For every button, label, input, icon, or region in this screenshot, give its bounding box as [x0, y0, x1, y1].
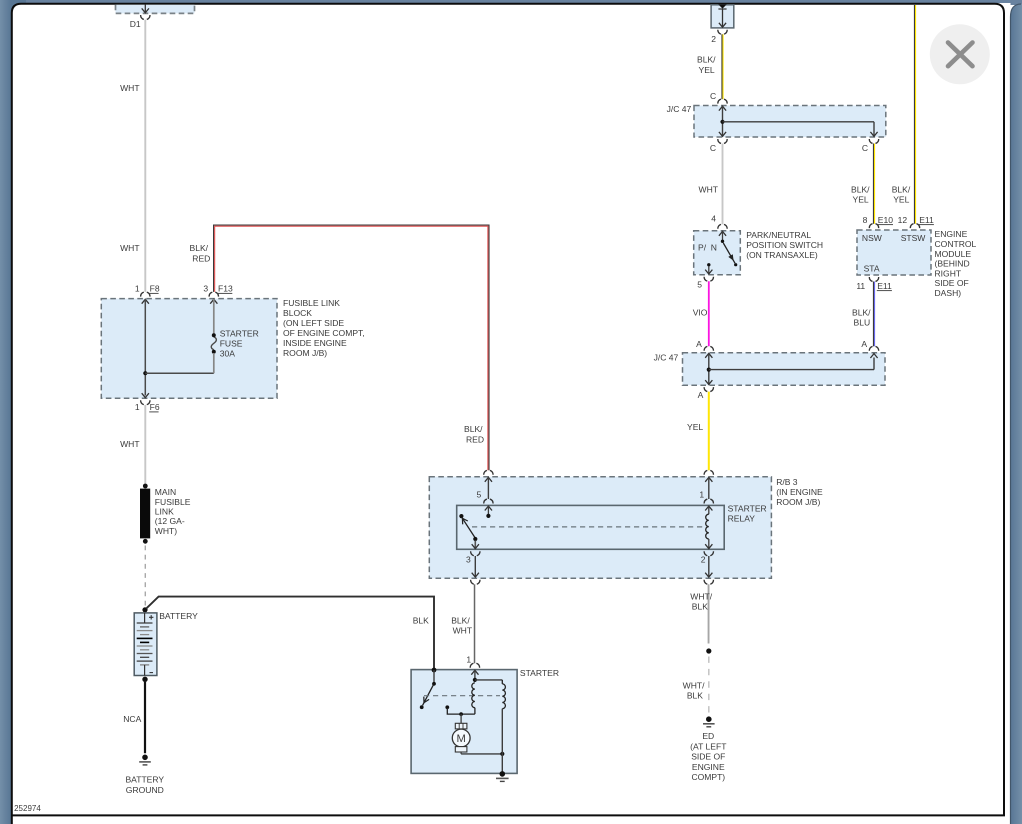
- svg-text:5: 5: [697, 279, 702, 289]
- svg-text:R/B 3: R/B 3: [776, 477, 798, 487]
- svg-text:C: C: [862, 143, 868, 153]
- wire BLK/YEL to ECM STSW: [913, 5, 915, 224]
- svg-text:PARK/NEUTRAL: PARK/NEUTRAL: [746, 230, 811, 240]
- starter pull-in coil: [472, 683, 475, 708]
- svg-text:5: 5: [477, 490, 482, 500]
- svg-text:12: 12: [898, 215, 908, 225]
- starter fuse 30A: [211, 299, 216, 373]
- fusible block exit arrow: [142, 393, 149, 397]
- svg-text:BLK/: BLK/: [851, 184, 870, 194]
- svg-text:J/C 47: J/C 47: [654, 353, 679, 363]
- svg-text:3: 3: [203, 284, 208, 294]
- wire WHT F6 to main fusible link: [144, 405, 146, 484]
- main fusible link: [140, 484, 150, 544]
- svg-text:INSIDE ENGINE: INSIDE ENGINE: [283, 338, 347, 348]
- svg-text:WHT: WHT: [120, 439, 140, 449]
- svg-text:11: 11: [856, 281, 865, 291]
- wire VIO: [708, 281, 710, 346]
- starter solenoid wiring: [473, 670, 503, 682]
- svg-text:BLK/: BLK/: [852, 307, 871, 317]
- starter contact stub: [445, 705, 475, 714]
- junction dot WHT/BLK: [706, 648, 711, 653]
- svg-text:(AT LEFT: (AT LEFT: [690, 741, 727, 751]
- svg-text:30A: 30A: [220, 349, 236, 359]
- battery ground symbol: [139, 755, 151, 765]
- ECM pin 8 connector: [869, 224, 878, 228]
- svg-text:1: 1: [466, 655, 471, 665]
- frame corner patch top-left: [0, 0, 26, 18]
- relay block R/B 3 box: [429, 477, 771, 579]
- svg-text:OF ENGINE COMPT,: OF ENGINE COMPT,: [283, 328, 365, 338]
- svg-text:2: 2: [701, 555, 706, 565]
- wire WHT D1 to F8: [144, 20, 146, 292]
- P/N switch contact: [721, 231, 738, 266]
- svg-text:ROOM J/B): ROOM J/B): [776, 497, 820, 507]
- svg-text:WHT/: WHT/: [683, 680, 705, 690]
- svg-text:3: 3: [466, 555, 471, 565]
- svg-text:E10: E10: [878, 215, 893, 225]
- starter pin 1 entry arrow: [471, 670, 478, 674]
- wire inside fusible block horizontal: [145, 372, 214, 374]
- svg-text:WHT: WHT: [120, 243, 140, 253]
- svg-text:STARTER: STARTER: [520, 668, 559, 678]
- dashed wire to battery: [144, 546, 146, 606]
- starter mechanical dashed link: [424, 695, 500, 697]
- svg-text:ROOM J/B): ROOM J/B): [283, 348, 327, 358]
- relay coil: [705, 506, 712, 549]
- svg-text:WHT: WHT: [120, 83, 140, 93]
- svg-text:STARTER: STARTER: [220, 328, 259, 338]
- svg-text:A: A: [696, 339, 702, 349]
- P/N pin 5 connector: [704, 277, 713, 281]
- svg-text:BLK: BLK: [692, 602, 708, 612]
- svg-text:E11: E11: [919, 215, 934, 225]
- svg-text:WHT: WHT: [453, 626, 473, 636]
- svg-text:(BEHIND: (BEHIND: [935, 259, 970, 269]
- engine control module box: [857, 230, 931, 275]
- motor M: [452, 714, 470, 754]
- wire inside fusible block left: [144, 299, 146, 396]
- svg-text:D1: D1: [130, 19, 141, 29]
- svg-text:252974: 252974: [14, 804, 41, 813]
- wire pin1 to relay: [708, 477, 710, 499]
- svg-text:ENGINE: ENGINE: [935, 229, 968, 239]
- relay mechanical dashed link: [472, 526, 704, 528]
- svg-text:BLK/: BLK/: [451, 615, 470, 625]
- ECM pin 12 connector: [910, 224, 919, 228]
- svg-text:(12 GA-: (12 GA-: [155, 516, 185, 526]
- junction connector J/C 47 box 2: [683, 353, 886, 386]
- svg-text:WHT: WHT: [699, 184, 719, 194]
- svg-text:BATTERY: BATTERY: [125, 774, 164, 784]
- wire BLK/WHT relay to starter: [473, 584, 475, 663]
- starter switch contact: [420, 668, 437, 710]
- starter hold-in coil: [501, 680, 503, 684]
- svg-text:(IN ENGINE: (IN ENGINE: [776, 487, 823, 497]
- J/C 47 exit arrows: [719, 132, 726, 136]
- wire BLK/YEL to J/C 47: [721, 34, 723, 99]
- ignition switch connector box pin 2: [711, 4, 734, 34]
- svg-text:1: 1: [699, 489, 704, 499]
- svg-text:YEL: YEL: [687, 422, 703, 432]
- wire WHT to park/neutral switch: [722, 144, 724, 225]
- viewer frame left bar: [0, 0, 11, 824]
- fusible link block box: [101, 299, 277, 399]
- svg-text:WHT/: WHT/: [690, 591, 712, 601]
- svg-text:WHT): WHT): [155, 526, 177, 536]
- svg-text:BLK: BLK: [687, 690, 703, 700]
- svg-text:NSW: NSW: [862, 233, 883, 243]
- svg-text:4: 4: [711, 214, 716, 224]
- wire pin5 to relay: [487, 477, 489, 499]
- svg-text:RED: RED: [192, 253, 210, 263]
- svg-text:C: C: [710, 143, 716, 153]
- wire YEL: [708, 392, 710, 471]
- svg-text:DASH): DASH): [935, 288, 962, 298]
- svg-text:FUSIBLE LINK: FUSIBLE LINK: [283, 298, 340, 308]
- pin 1 F8: [135, 284, 160, 304]
- svg-text:F8: F8: [150, 284, 160, 294]
- svg-text:YEL: YEL: [893, 195, 909, 205]
- svg-text:ENGINE: ENGINE: [692, 762, 725, 772]
- svg-text:POSITION SWITCH: POSITION SWITCH: [746, 240, 823, 250]
- svg-text:A: A: [698, 390, 704, 400]
- svg-text:F6: F6: [150, 402, 160, 412]
- R/B3 pin 1 connector: [704, 470, 713, 474]
- relay pin 2 bottom connector: [704, 551, 713, 555]
- svg-text:BLU: BLU: [854, 318, 871, 328]
- P/N pin 5 stub: [705, 263, 712, 274]
- junction dot motor tap: [459, 712, 463, 716]
- wire BLK/YEL to ECM NSW: [872, 144, 874, 224]
- pin 3 F13: [203, 284, 233, 304]
- svg-text:J/C 47: J/C 47: [667, 104, 692, 114]
- svg-text:YEL: YEL: [699, 65, 715, 75]
- svg-text:BATTERY: BATTERY: [159, 611, 198, 621]
- close button: [930, 24, 990, 84]
- svg-text:(ON TRANSAXLE): (ON TRANSAXLE): [746, 250, 818, 260]
- svg-text:1: 1: [135, 284, 140, 294]
- svg-text:FUSE: FUSE: [220, 338, 243, 348]
- connector D1 box: [116, 5, 195, 20]
- svg-text:F13: F13: [218, 284, 233, 294]
- starter motor to ground wire: [461, 753, 502, 755]
- svg-text:BLK/: BLK/: [464, 424, 483, 434]
- svg-text:RED: RED: [466, 434, 484, 444]
- svg-text:BLK: BLK: [413, 615, 429, 625]
- svg-text:MAIN: MAIN: [155, 487, 176, 497]
- viewer frame top bar: [0, 0, 1022, 3]
- relay switch: [459, 514, 479, 549]
- viewer frame right bar: [1011, 4, 1022, 824]
- svg-text:STSW: STSW: [901, 233, 927, 243]
- starter pin 1 connector: [470, 663, 479, 667]
- wire BLK/RED (F13 up, across, down to relay pin 5): [214, 225, 489, 470]
- J/C 47 #2 exit arrow: [705, 380, 712, 384]
- ground ED: [703, 716, 715, 726]
- starter relay inner box: [457, 505, 725, 549]
- svg-text:VIO: VIO: [693, 307, 708, 317]
- svg-text:COMPT): COMPT): [691, 772, 725, 782]
- J/C 47 #2 internal wires: [708, 353, 710, 385]
- svg-text:LINK: LINK: [155, 506, 174, 516]
- dashed wire WHT/BLK to ED: [708, 657, 710, 714]
- svg-text:RELAY: RELAY: [728, 514, 756, 524]
- J/C 47 #2 pin A connectors top: [704, 346, 713, 350]
- svg-text:A: A: [861, 339, 867, 349]
- svg-text:ED: ED: [702, 731, 714, 741]
- wire BLK battery to starter: [146, 597, 434, 670]
- starter case ground: [496, 771, 509, 781]
- svg-text:SIDE OF: SIDE OF: [935, 278, 969, 288]
- starter right branch: [501, 709, 503, 774]
- pin 1 F6: [135, 400, 160, 412]
- J/C 47 pin C top connector: [718, 99, 727, 103]
- junction connector J/C 47 box 1: [694, 106, 886, 138]
- svg-text:BLK/: BLK/: [892, 184, 911, 194]
- J/C 47 internal wires: [722, 106, 724, 137]
- svg-text:N: N: [711, 243, 717, 253]
- svg-text:BLK/: BLK/: [697, 55, 716, 65]
- wire BLK/BLU: [872, 282, 874, 347]
- ECM pin 11 connector: [869, 277, 878, 281]
- svg-text:CONTROL: CONTROL: [935, 239, 977, 249]
- park/neutral position switch box: [694, 231, 741, 275]
- svg-text:8: 8: [863, 215, 868, 225]
- junction dot: [143, 371, 147, 375]
- svg-text:MODULE: MODULE: [935, 249, 972, 259]
- svg-text:SIDE OF: SIDE OF: [691, 752, 725, 762]
- svg-text:STA: STA: [864, 263, 880, 273]
- wire NCA: [144, 682, 146, 753]
- svg-text:2: 2: [711, 34, 716, 44]
- svg-text:P/: P/: [698, 243, 707, 253]
- svg-text:STARTER: STARTER: [728, 504, 767, 514]
- starter box: [411, 670, 517, 774]
- svg-text:E11: E11: [877, 281, 892, 291]
- P/N pin 4 connector: [718, 224, 727, 228]
- svg-text:NCA: NCA: [123, 714, 141, 724]
- svg-text:GROUND: GROUND: [126, 785, 164, 795]
- J/C 47 bottom connectors: [718, 139, 727, 143]
- svg-text:YEL: YEL: [853, 195, 869, 205]
- R/B3 bottom connectors: [471, 580, 480, 584]
- svg-text:BLK/: BLK/: [190, 243, 209, 253]
- R/B3 pin 5 connector: [484, 470, 493, 474]
- svg-text:RIGHT: RIGHT: [935, 268, 962, 278]
- svg-text:(ON LEFT SIDE: (ON LEFT SIDE: [283, 318, 344, 328]
- relay pin 3 bottom connector: [471, 551, 480, 555]
- svg-text:BLOCK: BLOCK: [283, 308, 312, 318]
- svg-text:FUSIBLE: FUSIBLE: [155, 497, 191, 507]
- J/C 47 #2 bottom connector: [704, 387, 713, 391]
- battery: [134, 607, 157, 682]
- svg-text:C: C: [710, 91, 716, 101]
- svg-text:M: M: [457, 733, 466, 745]
- relay inner pin connectors top: [484, 499, 493, 503]
- relay pin 5 stub and contact: [486, 506, 490, 518]
- wire WHT/BLK relay pin 2 down: [707, 584, 709, 643]
- svg-text:1: 1: [135, 402, 140, 412]
